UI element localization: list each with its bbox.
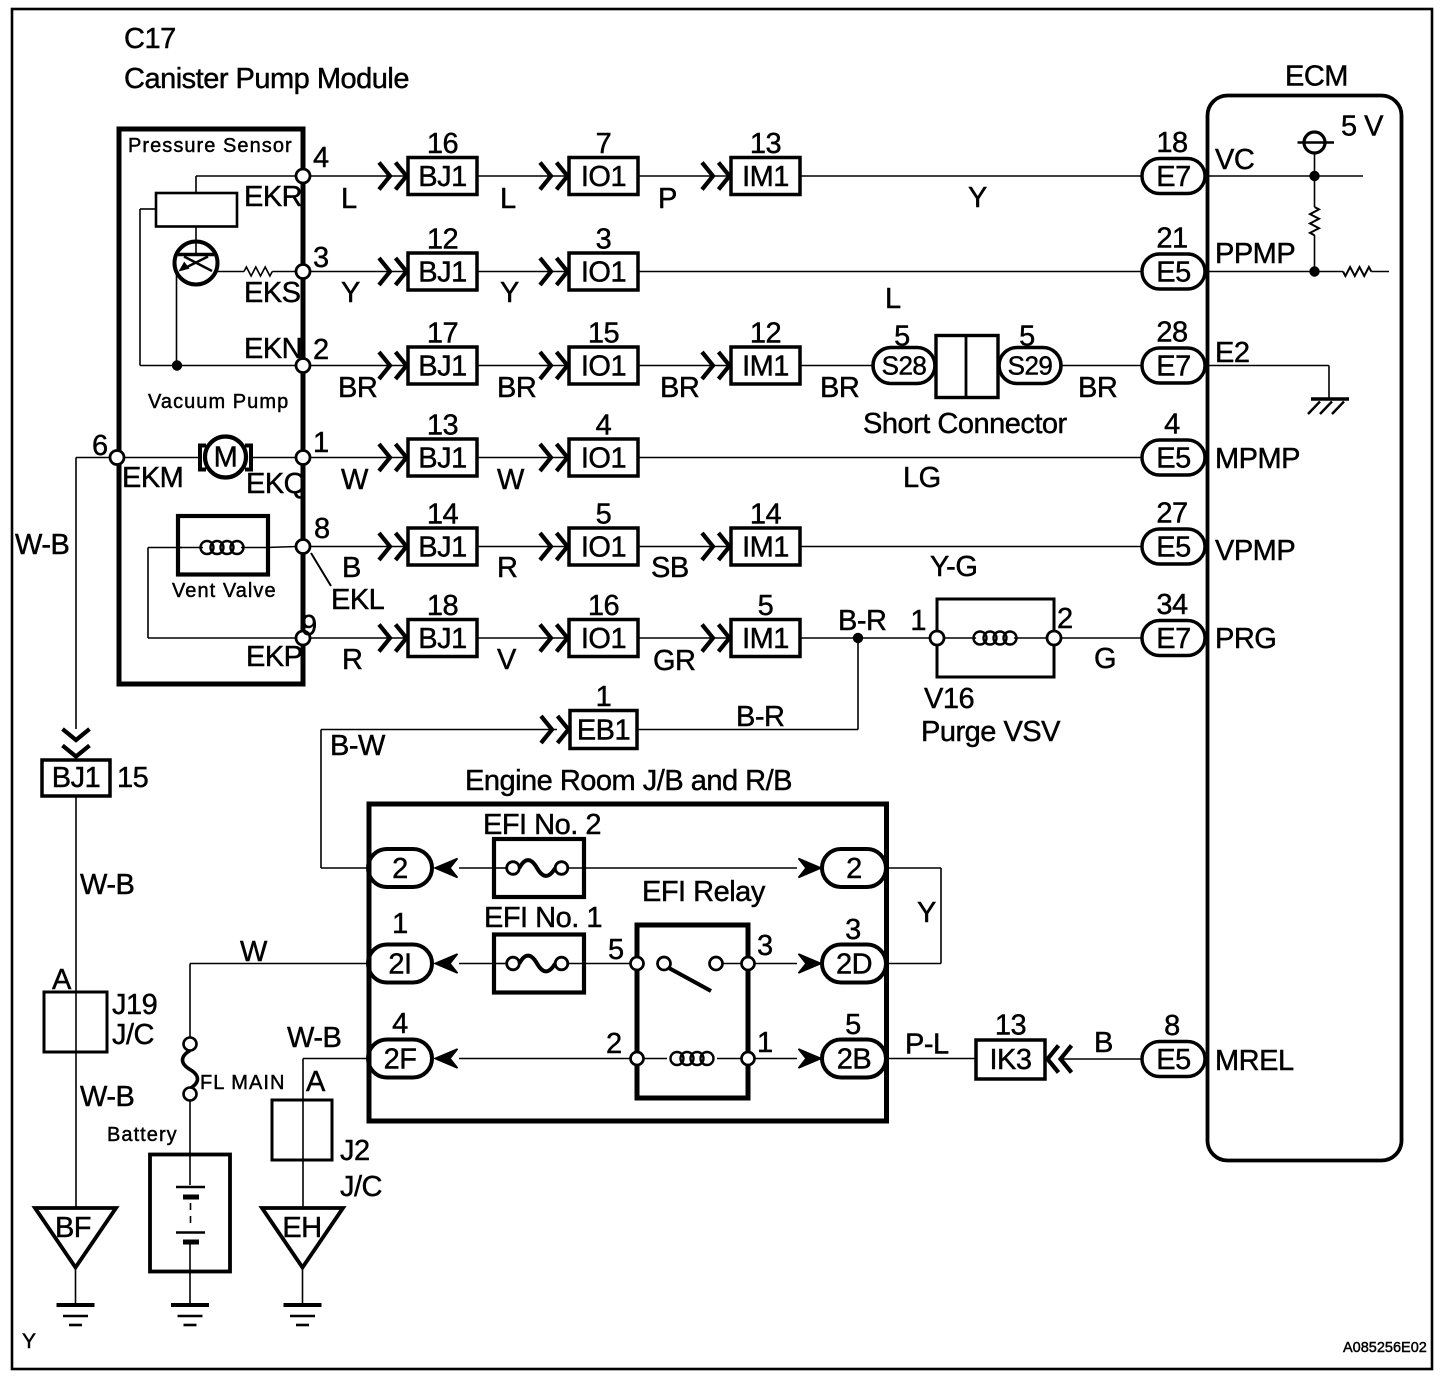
- wire EH to ground: [302, 1267, 304, 1305]
- vent valve coil: [180, 547, 203, 549]
- svg-text:BJ1: BJ1: [418, 623, 466, 655]
- relay switch blade: [668, 968, 711, 992]
- svg-text:VPMP: VPMP: [1215, 535, 1295, 567]
- resistor R1 vertical: [1314, 176, 1316, 207]
- svg-text:B-R: B-R: [838, 605, 886, 637]
- svg-text:IO1: IO1: [581, 257, 626, 289]
- svg-text:BR: BR: [1078, 372, 1117, 404]
- svg-text:BR: BR: [497, 372, 536, 404]
- wire VC rail: [1205, 175, 1363, 177]
- svg-text:3: 3: [596, 224, 612, 256]
- chevron row5 b: [540, 533, 551, 560]
- chevron row1 c: [702, 163, 713, 190]
- svg-text:15: 15: [588, 318, 619, 350]
- svg-text:14: 14: [427, 499, 459, 531]
- svg-text:BJ1: BJ1: [418, 443, 466, 475]
- svg-text:13: 13: [995, 1010, 1026, 1042]
- wire row1 BJ1-IO1: [477, 175, 569, 177]
- ECM connector E7 pin 34 (PRG): [1142, 621, 1205, 656]
- svg-text:13: 13: [427, 410, 458, 442]
- svg-text:B-W: B-W: [330, 730, 386, 762]
- wire row2 IO1-E5: [638, 271, 1142, 273]
- chevron row2 a: [379, 258, 390, 285]
- wire row4 BJ1-IO1: [477, 457, 569, 459]
- svg-text:3: 3: [845, 914, 861, 946]
- svg-text:E5: E5: [1156, 1044, 1190, 1076]
- pressure transducer symbol: [175, 242, 218, 285]
- svg-text:17: 17: [427, 318, 458, 350]
- purge VSV V16: [937, 599, 1054, 677]
- connector IM1 (row5): [731, 528, 800, 565]
- svg-text:16: 16: [588, 590, 619, 622]
- connector BJ1 (row3): [408, 347, 477, 384]
- connector IO1 (row4): [569, 439, 638, 476]
- svg-text:2: 2: [606, 1028, 622, 1060]
- svg-text:EKL: EKL: [331, 584, 385, 616]
- svg-text:BR: BR: [820, 372, 859, 404]
- J/B connector 2D: [822, 945, 886, 983]
- svg-text:B: B: [1094, 1027, 1113, 1059]
- connector BJ1 (row4): [408, 439, 477, 476]
- svg-text:W: W: [341, 464, 369, 496]
- svg-text:12: 12: [427, 224, 458, 256]
- svg-text:12: 12: [750, 318, 781, 350]
- svg-text:BJ1: BJ1: [418, 161, 466, 193]
- connector BJ1 (row5): [408, 528, 477, 565]
- wire row5 IM1-E5: [801, 546, 1142, 548]
- vacuum pump motor M1: [119, 457, 200, 459]
- svg-text:1: 1: [313, 427, 329, 459]
- svg-text:3: 3: [313, 242, 329, 274]
- svg-text:V16: V16: [924, 683, 974, 715]
- svg-text:Battery: Battery: [107, 1124, 178, 1146]
- resistor R2 horizontal: [1343, 267, 1371, 276]
- J/B connector 2: [368, 849, 432, 887]
- wire relay pin3 to 2D: [755, 963, 798, 965]
- svg-text:28: 28: [1156, 317, 1187, 349]
- svg-text:C17: C17: [124, 23, 176, 55]
- chevron row3 a: [379, 352, 390, 379]
- arrowhead 2B: [799, 1049, 822, 1068]
- wire row3 S29-E7: [1061, 365, 1142, 367]
- wire relay pin1 to 2B: [755, 1058, 798, 1060]
- svg-text:5: 5: [845, 1009, 861, 1041]
- svg-text:5: 5: [608, 934, 624, 966]
- wire row5 BJ1-IO1: [477, 546, 569, 548]
- arrowhead 2 right: [799, 859, 822, 878]
- svg-text:Pressure Sensor: Pressure Sensor: [128, 135, 293, 157]
- fuse EFI No. 2: [494, 839, 584, 897]
- svg-text:IK3: IK3: [989, 1044, 1031, 1076]
- wire 2F row to J2: [303, 1058, 368, 1060]
- connector IM1 (row1): [731, 158, 800, 195]
- module pin 1 node: [296, 451, 310, 465]
- J/B connector 2F: [368, 1040, 432, 1078]
- relay contact pin 5 node: [631, 957, 644, 970]
- arrowhead 2D: [799, 954, 822, 973]
- relay coil: [671, 1052, 684, 1065]
- wire vent valve to pin 9: [148, 547, 182, 549]
- svg-text:2: 2: [392, 853, 408, 885]
- svg-text:W-B: W-B: [80, 869, 134, 901]
- svg-text:R: R: [497, 552, 517, 584]
- junction dot VC: [1309, 171, 1319, 181]
- chassis ground E2: [1311, 397, 1349, 401]
- svg-text:2F: 2F: [384, 1044, 417, 1076]
- svg-text:16: 16: [427, 128, 458, 160]
- svg-text:BJ1: BJ1: [52, 762, 100, 794]
- svg-text:1: 1: [596, 681, 612, 713]
- connector EB1: [570, 711, 637, 749]
- connector IK3: [976, 1040, 1045, 1079]
- wire sensor bottom to transducer: [195, 227, 197, 255]
- svg-text:5: 5: [758, 590, 774, 622]
- svg-text:J19: J19: [112, 989, 157, 1021]
- pressure sensor element rect: [156, 193, 237, 227]
- svg-text:A: A: [306, 1066, 326, 1098]
- wire EKM to W-B trunk: [76, 457, 110, 459]
- svg-text:Y-G: Y-G: [930, 551, 977, 583]
- svg-text:2B: 2B: [837, 1044, 871, 1076]
- wire B-W from EB1 to J/B: [321, 729, 557, 731]
- connector IM1 (row3): [731, 347, 800, 384]
- wire fuse EFI2 to right 2: [584, 867, 797, 869]
- wire row2 BJ1-IO1: [477, 271, 569, 273]
- ECM connector E7 pin 28 (E2): [1142, 348, 1205, 383]
- wire FL MAIN to battery: [189, 1100, 191, 1185]
- svg-text:Y: Y: [341, 277, 360, 309]
- svg-text:18: 18: [427, 590, 458, 622]
- svg-text:8: 8: [1164, 1010, 1180, 1042]
- pointer line EKL: [311, 553, 331, 586]
- chevron row3 c: [702, 352, 713, 379]
- svg-text:Y: Y: [968, 182, 987, 214]
- svg-text:EFI Relay: EFI Relay: [642, 876, 766, 908]
- svg-text:BJ1: BJ1: [418, 351, 466, 383]
- relay contact fixed node b: [710, 957, 723, 970]
- wire EB1 to B-R junction: [637, 729, 858, 731]
- svg-text:IO1: IO1: [581, 623, 626, 655]
- svg-text:14: 14: [750, 499, 782, 531]
- svg-text:15: 15: [117, 762, 148, 794]
- wire 2F to relay pin2: [459, 1058, 631, 1060]
- wire BJ1-15 down to BF: [75, 796, 77, 1207]
- svg-text:8: 8: [314, 513, 330, 545]
- relay pin 2 node: [631, 1052, 644, 1065]
- svg-text:EKS: EKS: [244, 277, 301, 309]
- resistor in EKS branch: [216, 271, 245, 273]
- wire 2B to IK3: [886, 1058, 976, 1060]
- svg-text:Y: Y: [500, 277, 519, 309]
- svg-text:P: P: [658, 183, 677, 215]
- svg-text:4: 4: [313, 142, 329, 174]
- wire 2 to fuse: [459, 867, 494, 869]
- wire vent valve to pin 8: [266, 547, 297, 548]
- svg-text:2: 2: [1057, 603, 1073, 635]
- svg-text:2I: 2I: [388, 949, 411, 981]
- ECM connector E5 pin 21 (PPMP): [1142, 254, 1205, 289]
- svg-text:4: 4: [596, 410, 612, 442]
- wire row1 IM1-E7: [801, 175, 1142, 177]
- junction J19 J/C box: [44, 992, 107, 1052]
- chevron IK3: [1061, 1046, 1072, 1073]
- wire 2I to fuse: [459, 963, 494, 965]
- Engine Room J/B and R/B box: [369, 804, 887, 1121]
- ECM connector E5 pin 27 (VPMP): [1142, 529, 1205, 564]
- svg-text:E5: E5: [1156, 532, 1190, 564]
- module pin 4 node: [296, 169, 310, 183]
- module pin 3 node: [296, 265, 310, 279]
- ground symbol BF: [57, 1303, 95, 1307]
- wire IK3 to E5: [1060, 1058, 1142, 1060]
- module pin 8 node: [296, 540, 310, 554]
- svg-text:2: 2: [313, 334, 329, 366]
- svg-text:Purge VSV: Purge VSV: [921, 716, 1061, 748]
- svg-text:1: 1: [757, 1027, 773, 1059]
- svg-text:Y: Y: [22, 1330, 36, 1353]
- junction dot EKN: [172, 360, 182, 370]
- ECM box: [1208, 96, 1402, 1161]
- wire row4 pin1 to BJ1: [310, 457, 408, 459]
- svg-text:Y: Y: [917, 897, 936, 929]
- svg-text:BR: BR: [660, 372, 699, 404]
- svg-text:EKR: EKR: [244, 181, 302, 213]
- chevron row6 b: [540, 625, 551, 652]
- ECM connector E7 pin 18 (VC): [1142, 159, 1205, 194]
- svg-text:5: 5: [596, 499, 612, 531]
- svg-text:W-B: W-B: [15, 529, 69, 561]
- connector IO1 (row2): [569, 253, 638, 290]
- connector IO1 (row5): [569, 528, 638, 565]
- svg-text:Canister Pump Module: Canister Pump Module: [124, 63, 409, 95]
- wire row2 pin3 to BJ1: [310, 271, 408, 273]
- ECM connector E5 pin 8 (MREL): [1142, 1042, 1205, 1077]
- junction dot B-R: [853, 633, 863, 643]
- ground symbol battery: [171, 1303, 209, 1307]
- svg-text:S28: S28: [882, 351, 927, 381]
- svg-text:GR: GR: [653, 645, 696, 677]
- connector BJ1 (row6): [408, 620, 477, 657]
- chevron row6 c: [702, 625, 713, 652]
- connector IO1 (row1): [569, 158, 638, 195]
- EFI relay box: [637, 925, 748, 1098]
- svg-text:J/C: J/C: [340, 1171, 382, 1203]
- wire row3 IM1-S28: [801, 365, 873, 367]
- battery cell plates: [176, 1186, 205, 1189]
- short connector body: [936, 336, 998, 398]
- battery box: [150, 1155, 230, 1272]
- connector IO1 (row3): [569, 347, 638, 384]
- svg-text:J2: J2: [340, 1135, 370, 1167]
- wire E2 to ground: [1205, 365, 1329, 367]
- svg-text:27: 27: [1156, 498, 1187, 530]
- svg-text:R: R: [342, 644, 362, 676]
- svg-text:IM1: IM1: [742, 532, 789, 564]
- svg-text:B: B: [342, 552, 361, 584]
- chevron row3 b: [540, 352, 551, 379]
- module pin 2 node: [296, 359, 310, 373]
- svg-text:PRG: PRG: [1215, 623, 1276, 655]
- arrowhead 2F left: [435, 1049, 458, 1068]
- svg-text:5: 5: [1019, 321, 1035, 353]
- fuse EFI No. 1: [494, 935, 584, 993]
- J/B connector 2I: [368, 945, 432, 983]
- connector BJ1 (row2): [408, 253, 477, 290]
- svg-text:E2: E2: [1215, 337, 1249, 369]
- module pin 6 node: [110, 451, 124, 465]
- wire sensor left branch: [140, 208, 156, 210]
- svg-text:M: M: [214, 442, 238, 474]
- chevron row5 c: [702, 533, 713, 560]
- svg-text:EKQ: EKQ: [246, 468, 306, 500]
- svg-text:21: 21: [1156, 223, 1187, 255]
- relay pin 3 node: [742, 957, 755, 970]
- svg-text:V: V: [497, 644, 517, 676]
- svg-text:BR: BR: [338, 372, 377, 404]
- wire row1 pin4 to BJ1: [310, 175, 408, 177]
- svg-text:B-R: B-R: [736, 701, 784, 733]
- svg-text:5: 5: [894, 321, 910, 353]
- arrowhead 2 left: [435, 859, 458, 878]
- wire row3 IO1-IM1: [638, 365, 731, 367]
- ground triangle EH: [262, 1208, 343, 1268]
- chevron down BJ1-15: [63, 729, 90, 740]
- wire Y loop: [886, 867, 941, 869]
- svg-text:IM1: IM1: [742, 161, 789, 193]
- svg-text:W-B: W-B: [287, 1022, 341, 1054]
- chevron EB1: [541, 716, 552, 743]
- ECM connector E5 pin 4 (MPMP): [1142, 440, 1205, 475]
- svg-text:LG: LG: [903, 462, 941, 494]
- svg-text:P-L: P-L: [905, 1029, 949, 1061]
- wire row3 pin2 to BJ1: [310, 365, 408, 367]
- wire row5 IO1-IM1: [638, 546, 731, 548]
- svg-text:Engine Room J/B and R/B: Engine Room J/B and R/B: [465, 765, 792, 797]
- svg-text:SB: SB: [651, 552, 689, 584]
- ground triangle BF: [35, 1208, 116, 1268]
- wire BF to ground: [75, 1267, 77, 1305]
- svg-text:E5: E5: [1156, 443, 1190, 475]
- wire row1 IO1-IM1: [638, 175, 731, 177]
- module pin 9 node: [296, 631, 310, 645]
- chevron row5 a: [379, 533, 390, 560]
- svg-text:EFI No. 1: EFI No. 1: [484, 902, 602, 934]
- svg-text:MREL: MREL: [1215, 1045, 1294, 1077]
- svg-text:Short Connector: Short Connector: [863, 408, 1068, 440]
- svg-text:EKM: EKM: [122, 462, 183, 494]
- svg-text:IO1: IO1: [581, 351, 626, 383]
- module C17 Canister Pump Module box: [119, 129, 303, 684]
- svg-text:G: G: [1094, 643, 1116, 675]
- chevron row1 b: [540, 163, 551, 190]
- svg-text:18: 18: [1156, 127, 1187, 159]
- svg-text:E5: E5: [1156, 257, 1190, 289]
- svg-text:Vacuum Pump: Vacuum Pump: [148, 391, 289, 413]
- relay coil wire: [644, 1058, 668, 1060]
- svg-text:IO1: IO1: [581, 443, 626, 475]
- svg-text:IO1: IO1: [581, 532, 626, 564]
- svg-text:7: 7: [596, 128, 612, 160]
- svg-text:IM1: IM1: [742, 351, 789, 383]
- svg-text:MPMP: MPMP: [1215, 443, 1300, 475]
- wire 2I row to battery trunk: [190, 963, 368, 965]
- svg-text:IO1: IO1: [581, 161, 626, 193]
- wire row5 pin8 to BJ1: [310, 546, 408, 548]
- connector IO1 (row6): [569, 620, 638, 657]
- svg-text:EFI No. 2: EFI No. 2: [483, 809, 601, 841]
- chevron row4 b: [540, 444, 551, 471]
- fusible link FL MAIN: [184, 1038, 197, 1051]
- relay wire contact to pin3: [723, 963, 742, 965]
- svg-text:1: 1: [392, 908, 408, 940]
- svg-text:BF: BF: [55, 1212, 91, 1244]
- J/B connector 2: [822, 849, 886, 887]
- svg-text:BJ1: BJ1: [418, 532, 466, 564]
- wire fuse EFI1 to relay: [584, 963, 631, 965]
- svg-text:34: 34: [1156, 589, 1188, 621]
- svg-text:L: L: [500, 183, 516, 215]
- ground symbol EH: [284, 1303, 322, 1307]
- svg-text:4: 4: [1164, 409, 1180, 441]
- wire 5V to VC rail: [1314, 153, 1316, 176]
- svg-text:Vent Valve: Vent Valve: [172, 580, 277, 602]
- svg-text:3: 3: [757, 930, 773, 962]
- svg-text:2D: 2D: [836, 949, 872, 981]
- wire row6 V16-E7: [1061, 637, 1142, 639]
- svg-text:EH: EH: [282, 1212, 321, 1244]
- svg-text:VC: VC: [1215, 144, 1254, 176]
- wire EKR from sensor to pin 4: [196, 175, 297, 177]
- connector IM1 (row6): [731, 620, 800, 657]
- svg-text:A085256E02: A085256E02: [1343, 1340, 1427, 1356]
- wire PPMP rail: [1205, 271, 1343, 273]
- svg-text:IM1: IM1: [742, 623, 789, 655]
- splice S28: [873, 348, 935, 384]
- svg-text:E7: E7: [1156, 623, 1190, 655]
- chevron row6 a: [379, 625, 390, 652]
- svg-text:J/C: J/C: [112, 1019, 154, 1051]
- wire transducer emitter down: [176, 271, 178, 366]
- wire EKN row: [140, 365, 297, 367]
- wire row6 IM1 to V16: [801, 637, 930, 639]
- wire row6 BJ1-IO1: [477, 637, 569, 639]
- svg-text:ECM: ECM: [1285, 61, 1348, 93]
- svg-text:W: W: [497, 464, 525, 496]
- svg-text:L: L: [341, 183, 357, 215]
- svg-text:BJ1: BJ1: [418, 257, 466, 289]
- svg-text:PPMP: PPMP: [1215, 238, 1295, 270]
- connector BJ1 15: [42, 760, 110, 796]
- svg-text:W-B: W-B: [80, 1081, 134, 1113]
- 5V supply symbol: [1304, 132, 1325, 153]
- svg-text:1: 1: [910, 605, 926, 637]
- chevron row4 a: [379, 444, 390, 471]
- svg-text:L: L: [885, 283, 901, 315]
- svg-text:EKP: EKP: [246, 641, 303, 673]
- arrowhead 2I left: [435, 954, 458, 973]
- svg-text:E7: E7: [1156, 351, 1190, 383]
- svg-text:EB1: EB1: [577, 715, 630, 747]
- connector BJ1 (row1): [408, 158, 477, 195]
- wire row4 IO1-E5: [638, 457, 1142, 459]
- splice S29: [999, 348, 1061, 384]
- wire row3 BJ1-IO1: [477, 365, 569, 367]
- relay contact fixed node: [658, 957, 671, 970]
- junction dot PPMP: [1309, 266, 1319, 276]
- relay pin 1 node: [742, 1052, 755, 1065]
- chevron row2 b: [540, 258, 551, 285]
- J/B connector 2B: [822, 1040, 886, 1078]
